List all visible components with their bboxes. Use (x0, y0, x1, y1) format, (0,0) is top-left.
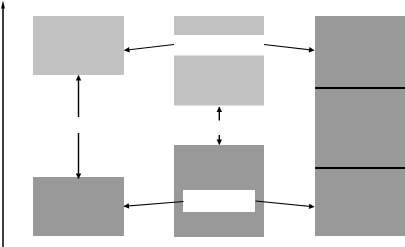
divider line 2 in right box (315, 167, 405, 169)
white band in middle-bottom box (183, 190, 255, 212)
box middle-top (light gray) (174, 16, 264, 106)
arrow middle-top band to top-left box (125, 45, 175, 51)
down arrow middle column (218, 135, 220, 145)
arrow middle-bottom band to bottom-left box (124, 202, 184, 207)
box bottom-left (dark gray) (33, 177, 124, 236)
box middle-bottom (dark gray) (174, 145, 264, 237)
axis vertical line with arrow (1, 1, 5, 247)
white band in middle-top box (174, 35, 264, 56)
arrow middle-bottom band to right box (256, 201, 315, 207)
box right column (dark gray) (315, 16, 405, 236)
box top-left (light gray) (33, 16, 124, 75)
up arrow left column (78, 76, 80, 118)
up arrow middle column (218, 107, 220, 121)
divider line 1 in right box (315, 87, 405, 89)
arrow middle-top band to right box (264, 45, 314, 51)
down arrow left column (78, 133, 80, 179)
